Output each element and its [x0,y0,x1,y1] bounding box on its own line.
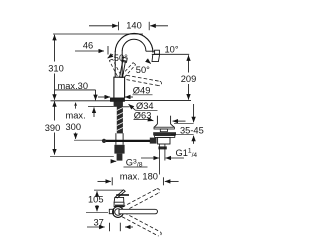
svg-text:105: 105 [88,195,104,205]
svg-text:10°: 10° [165,45,179,55]
svg-text:35-45: 35-45 [180,125,204,135]
dimension max.300 vertical [74,102,77,139]
spout neck tube [114,52,116,78]
svg-text:Ø63: Ø63 [134,110,152,120]
svg-text:max.: max. [66,110,86,120]
dimension max.180 [98,177,179,185]
supply hose [115,133,117,145]
50° swing arrow right [147,60,151,64]
svg-text:50°: 50° [136,65,150,75]
pop-up waste stem [156,116,158,124]
bottom view: handle side profile dome [114,197,124,202]
pop-up plug cap flare [154,124,174,127]
dimension 37 [87,223,133,232]
svg-text:max. 180: max. 180 [120,172,158,182]
plug neck [160,129,167,132]
reference line y=140 (pop-up rod level) [74,139,103,141]
rod clamp [150,138,157,144]
lever knob [122,57,127,62]
deck lines [51,101,192,107]
svg-text:300: 300 [66,122,82,132]
faucet spout inner arc [122,39,146,51]
dimension 35-45 [171,104,194,144]
svg-text:46: 46 [83,41,93,51]
locknut [114,101,122,106]
svg-text:140: 140 [126,21,142,31]
bottom view: dashed lever up [117,189,160,214]
max.30 leader and deck-thickness arrows [55,90,96,117]
plug lower band [155,136,175,138]
bottom view: dashed lever down [117,210,161,236]
waste body [158,137,170,144]
svg-text:390: 390 [45,123,61,133]
lever dashed position left [109,59,120,76]
faucet body [114,77,125,98]
svg-text:209: 209 [181,74,197,84]
dimension 209 vertical [188,55,190,99]
bottom view: body circle [113,207,124,218]
reference line y=156 (hose end level) [50,155,114,157]
lever dashed folded right [127,75,162,85]
dimension 46 [75,46,108,55]
hose nut [114,145,124,154]
spout underside to aerator [146,50,155,52]
tailpipe [158,146,166,149]
escutcheon [111,98,125,101]
dimension 390 vertical [54,101,56,154]
pop-up rod [105,140,151,142]
aerator block [155,50,160,54]
hose end tube [117,154,123,161]
aerator tip (10° tilt) [152,54,160,61]
lever (solid, upright) [120,60,126,77]
dimension 310 vertical [54,35,56,100]
rod knob [102,139,106,143]
plug dark band [153,132,176,135]
bottom view: left nub [109,209,113,213]
svg-text:310: 310 [48,64,64,74]
bottom view: 105 reference lines [94,189,123,191]
svg-text:max.30: max.30 [58,81,89,91]
svg-text:Ø49: Ø49 [133,86,151,96]
svg-text:50°: 50° [114,53,128,63]
svg-text:37: 37 [94,217,104,227]
10° reference line at outlet [152,53,189,55]
bottom view: solid lever capsule [119,209,157,214]
dimension 105 [96,191,98,211]
top reference line (spout top) [53,33,143,35]
lever dashed position right [122,63,136,78]
threaded shank below deck [117,101,123,133]
handle side profile arm [115,190,125,198]
svg-text:G11/4: G11/4 [176,148,198,159]
faucet spout outer arc [115,33,153,52]
50° swing arrow left [108,54,113,58]
dimension 140 (spout projection) [89,22,168,30]
